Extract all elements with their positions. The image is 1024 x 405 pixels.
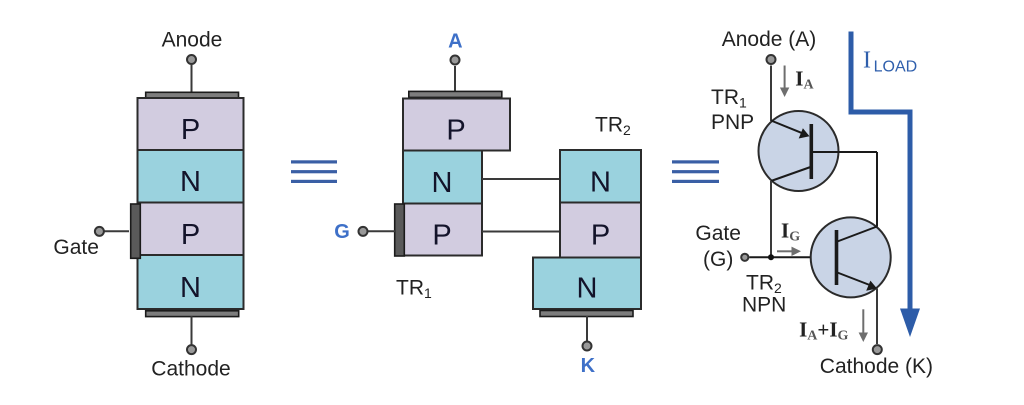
anode terminal: [767, 55, 776, 64]
transistor TR2: [811, 217, 891, 297]
TR1 layer P bottom: [403, 204, 482, 256]
cathode electrode: [540, 311, 633, 317]
svg-text:I: I: [863, 48, 871, 74]
wire: [191, 316, 193, 345]
svg-text:Anode (A): Anode (A): [722, 28, 817, 51]
junction: [768, 254, 774, 260]
svg-text:P: P: [432, 220, 451, 252]
svg-text:LOAD: LOAD: [874, 59, 918, 76]
wire: [191, 64, 193, 93]
wire: [482, 178, 560, 180]
wire: [876, 289, 878, 345]
gate terminal: [741, 254, 748, 261]
svg-text:(G): (G): [703, 248, 733, 271]
svg-text:Cathode (K): Cathode (K): [820, 355, 933, 378]
wire: [368, 230, 395, 232]
svg-text:N: N: [590, 167, 611, 199]
cathode terminal: [187, 345, 196, 354]
svg-text:N: N: [577, 273, 598, 305]
layer P2: [138, 203, 244, 256]
TR2 layer P: [560, 203, 641, 258]
gate terminal: [95, 227, 104, 236]
TR1 layer N: [403, 151, 482, 204]
svg-text:P: P: [591, 220, 610, 252]
layer P1: [138, 98, 244, 150]
wire: [770, 181, 772, 257]
svg-text:Cathode: Cathode: [151, 358, 230, 381]
svg-text:N: N: [432, 167, 453, 199]
current arrow IG: [777, 247, 801, 256]
gate electrode: [395, 204, 405, 256]
equivalence symbol 1: [291, 160, 337, 183]
wire: [482, 231, 560, 233]
wire: [749, 256, 834, 258]
wire: [586, 316, 588, 341]
svg-text:Gate: Gate: [695, 222, 741, 245]
TR2 layer N top: [560, 150, 641, 203]
svg-text:G: G: [334, 221, 350, 243]
wire: [454, 66, 456, 93]
anode terminal: [187, 55, 196, 64]
svg-text:N: N: [180, 166, 201, 198]
transistor TR1: [759, 111, 878, 191]
cathode terminal: [583, 342, 592, 351]
current arrow IA: [780, 66, 789, 98]
cathode terminal: [873, 345, 882, 354]
current arrow IA+IG: [859, 309, 868, 342]
anode terminal: [451, 56, 460, 65]
layer N2: [138, 255, 244, 309]
wire: [876, 152, 878, 227]
svg-text:Gate: Gate: [53, 236, 99, 259]
cathode electrode: [146, 311, 239, 317]
svg-text:P: P: [446, 115, 465, 147]
svg-text:NPN: NPN: [742, 293, 786, 316]
layer N1: [138, 150, 244, 203]
anode electrode: [146, 92, 239, 98]
svg-text:A: A: [448, 31, 462, 53]
svg-text:P: P: [181, 219, 200, 251]
svg-text:P: P: [181, 114, 200, 146]
gate electrode: [131, 204, 141, 258]
wire: [770, 66, 772, 122]
svg-text:Anode: Anode: [162, 29, 223, 52]
TR1 layer P top: [403, 99, 510, 151]
svg-text:PNP: PNP: [711, 111, 754, 134]
TR2 layer N bottom: [533, 258, 641, 310]
wire: [104, 230, 129, 232]
svg-text:K: K: [581, 355, 596, 377]
svg-text:N: N: [180, 272, 201, 304]
gate terminal: [359, 227, 368, 236]
load current arrow ILOAD: [851, 32, 910, 310]
anode electrode: [409, 91, 502, 97]
equivalence symbol 2: [672, 160, 719, 183]
